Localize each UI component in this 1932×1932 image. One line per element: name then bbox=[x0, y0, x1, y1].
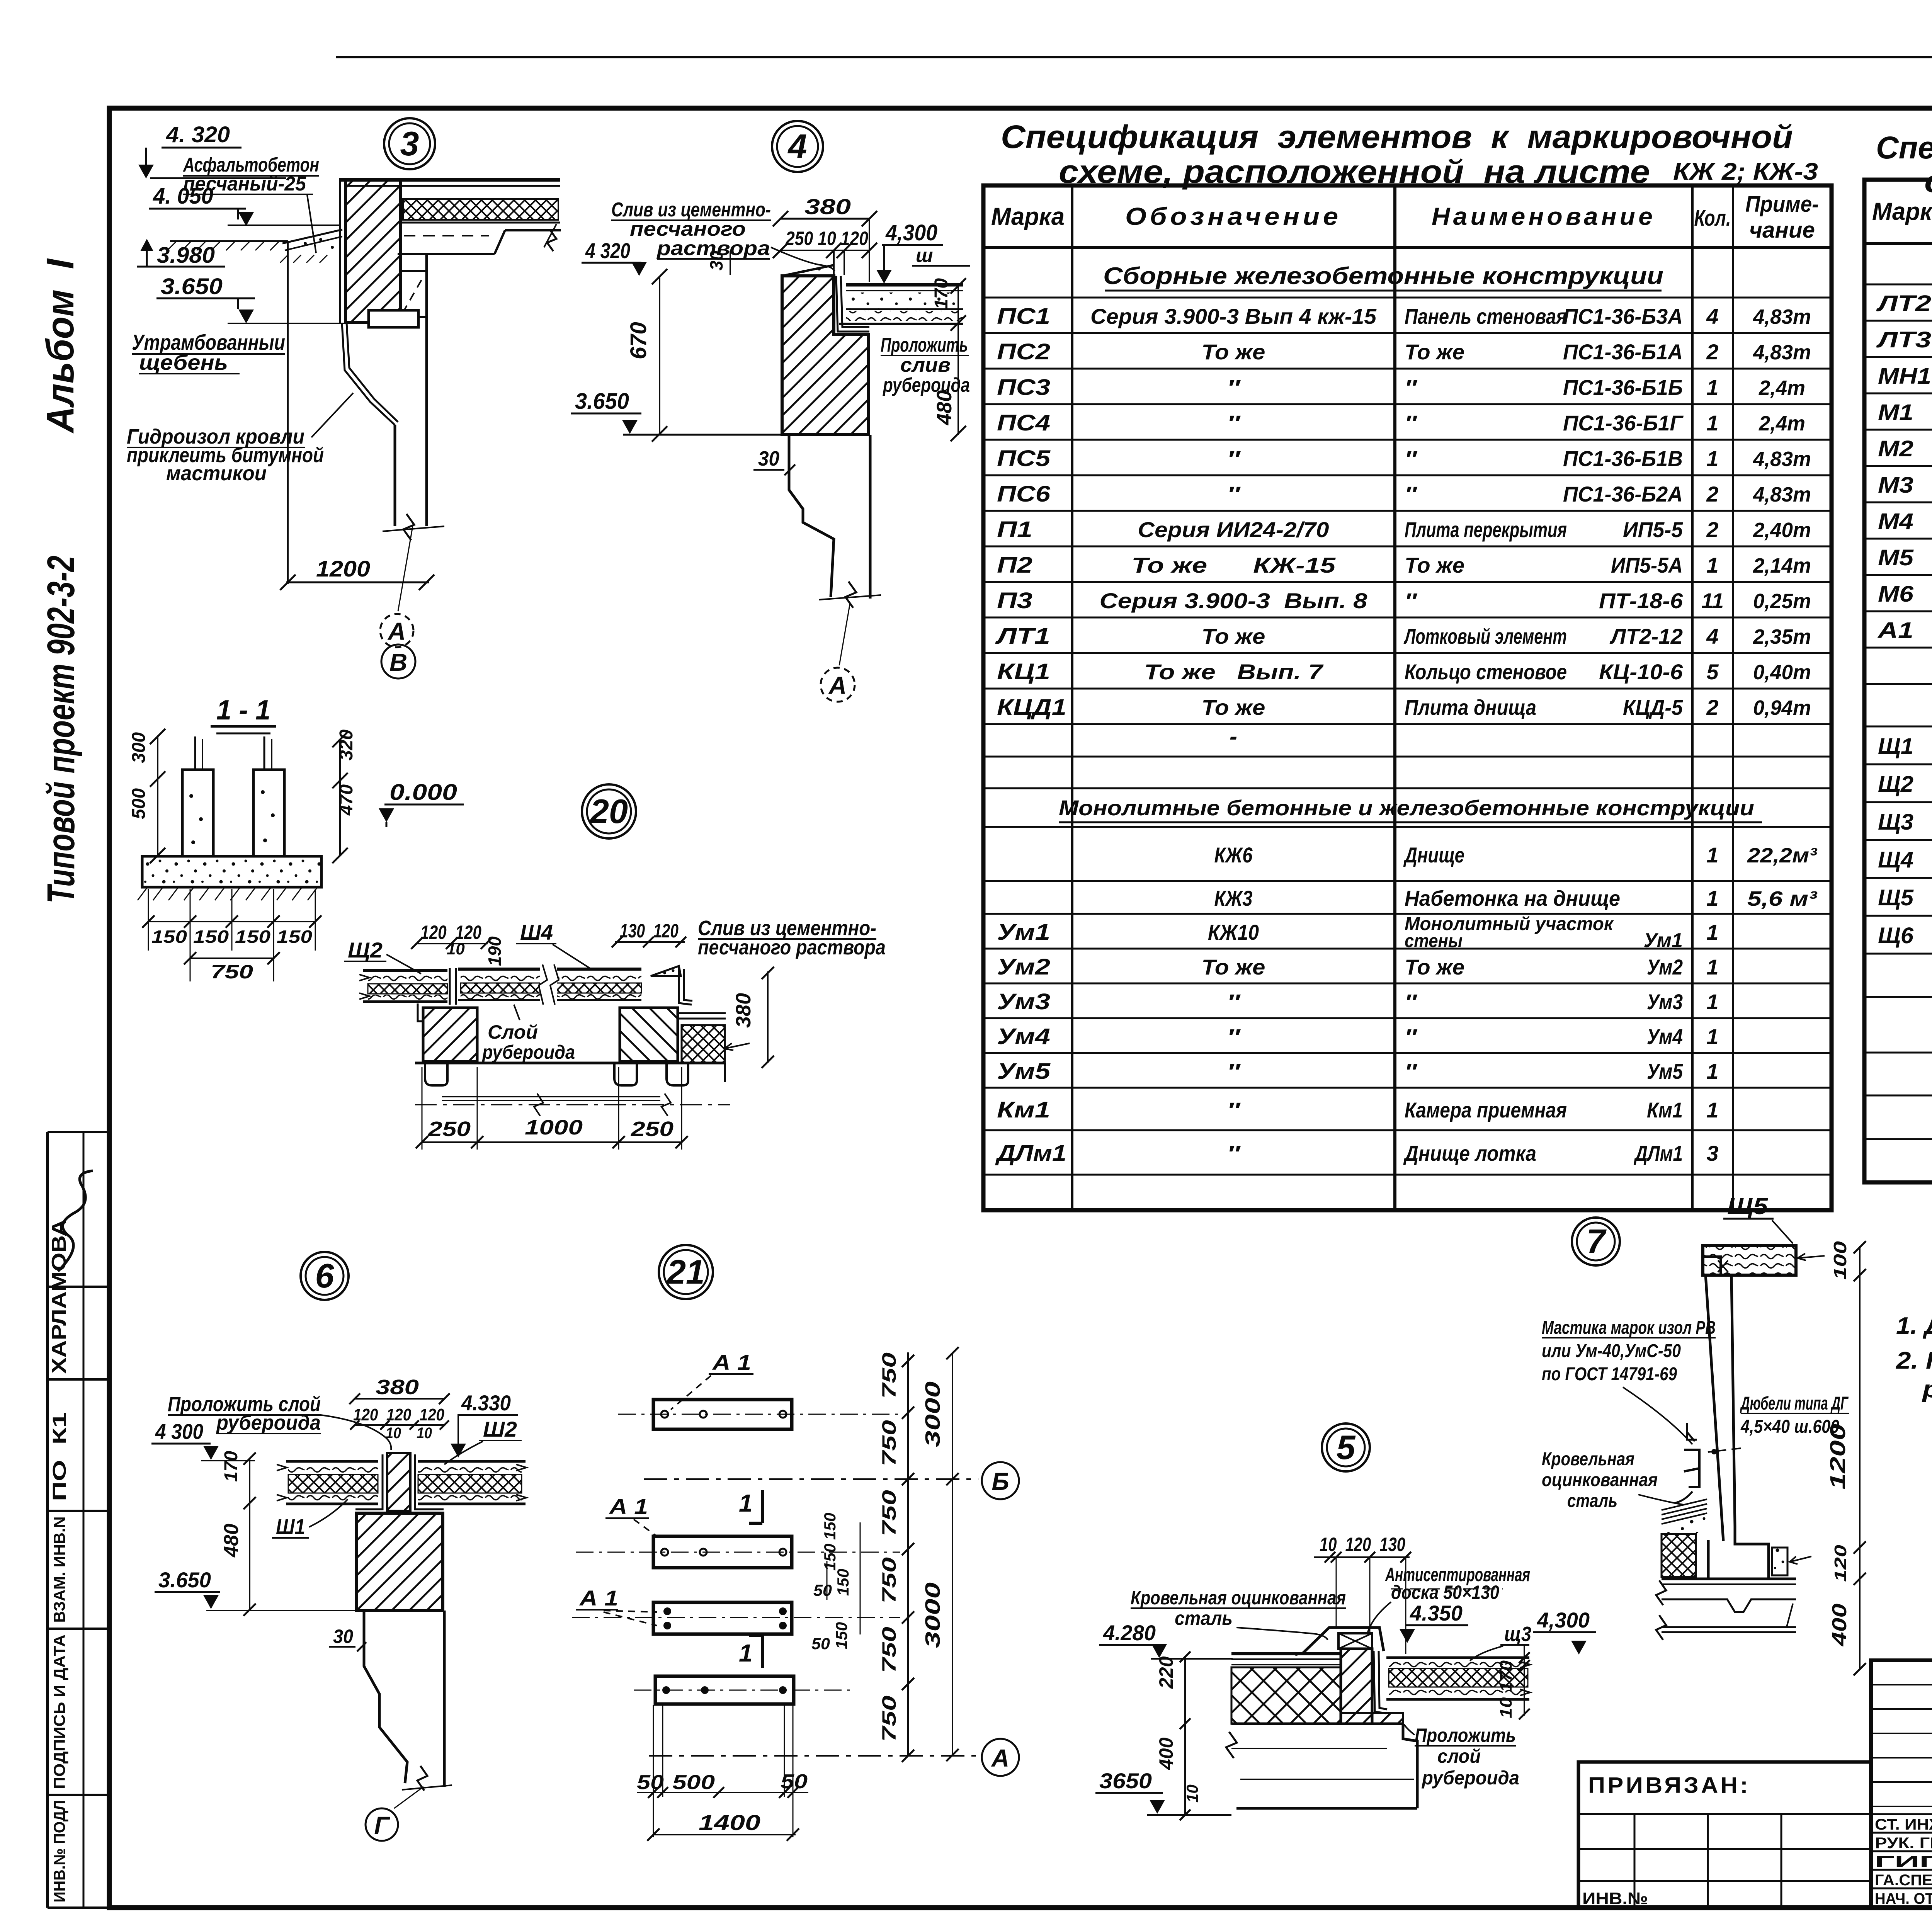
svg-text:То же: То же bbox=[1202, 955, 1265, 979]
detail 21: dim line 3000s bbox=[952, 1352, 953, 1756]
svg-text:КЖ 2; КЖ-3: КЖ 2; КЖ-3 bbox=[1673, 158, 1818, 185]
svg-text:рубероида: рубероида bbox=[1421, 1767, 1519, 1789]
svg-text:Ум4: Ум4 bbox=[1647, 1024, 1683, 1049]
svg-text:ДЛм1: ДЛм1 bbox=[1634, 1141, 1683, 1165]
svg-text:Щ3: Щ3 bbox=[1878, 810, 1913, 835]
detail 6: left dim chain bbox=[249, 1458, 250, 1611]
svg-text:380: 380 bbox=[376, 1376, 419, 1399]
svg-text:50: 50 bbox=[813, 1581, 832, 1599]
detail 3: axis circle A bbox=[380, 614, 413, 647]
svg-text:ХАРЛАМОВА: ХАРЛАМОВА bbox=[48, 1219, 70, 1374]
svg-text:380: 380 bbox=[804, 194, 851, 219]
svg-text:10 120 130: 10 120 130 bbox=[1320, 1534, 1405, 1555]
svg-text:Дюбели типа ДГ: Дюбели типа ДГ bbox=[1740, 1393, 1849, 1414]
svg-text:0,25т: 0,25т bbox=[1753, 590, 1811, 613]
svg-text:4 320: 4 320 bbox=[585, 238, 630, 263]
svg-text:Слой: Слой bbox=[488, 1021, 538, 1043]
svg-text:Км1: Км1 bbox=[997, 1097, 1050, 1122]
svg-text:″: ″ bbox=[1227, 482, 1241, 506]
title block: signature rows bbox=[1871, 1813, 1932, 1815]
svg-text:А: А bbox=[387, 617, 406, 645]
svg-text:4. 320: 4. 320 bbox=[166, 122, 230, 147]
svg-text:Ш4: Ш4 bbox=[520, 920, 553, 944]
svg-text:″: ″ bbox=[1405, 990, 1418, 1014]
svg-text:0.000: 0.000 bbox=[389, 780, 457, 805]
svg-text:стены: стены bbox=[1405, 931, 1463, 951]
svg-text:Б: Б bbox=[992, 1468, 1009, 1495]
svg-text:″: ″ bbox=[1405, 446, 1418, 471]
svg-text:1400: 1400 bbox=[699, 1810, 760, 1835]
svg-text:Альбом I: Альбом I bbox=[39, 258, 82, 434]
svg-text:Ум1: Ум1 bbox=[997, 920, 1050, 945]
svg-text:5,6 м³: 5,6 м³ bbox=[1747, 887, 1818, 910]
svg-text:100: 100 bbox=[1830, 1241, 1850, 1280]
svg-text:Плита днища: Плита днища bbox=[1405, 695, 1536, 719]
svg-text:То же: То же bbox=[1405, 340, 1464, 364]
detail 6: left roof slab bbox=[286, 1460, 378, 1463]
svg-text:4,300: 4,300 bbox=[885, 220, 937, 245]
detail 3: wall lower widening bbox=[400, 271, 427, 317]
detail 6: wall hatched bbox=[356, 1513, 443, 1611]
svg-text:2,4т: 2,4т bbox=[1759, 376, 1805, 400]
svg-text:30: 30 bbox=[333, 1626, 353, 1647]
svg-text:-: - bbox=[1230, 723, 1237, 749]
svg-text:50: 50 bbox=[781, 1770, 808, 1793]
svg-text:″: ″ bbox=[1227, 1141, 1241, 1165]
svg-text:470: 470 bbox=[336, 784, 357, 816]
detail 4 circle bbox=[772, 121, 823, 172]
svg-text:ПС1-36-Б2А: ПС1-36-Б2А bbox=[1563, 482, 1683, 506]
detail 7: top wooden panel bbox=[1703, 1246, 1796, 1275]
section 1-1: ground hatch bbox=[138, 888, 147, 900]
svg-text:ПС3: ПС3 bbox=[997, 375, 1050, 400]
detail 20: right membrane bend bbox=[679, 966, 692, 1005]
detail 5: right wood slab bbox=[1386, 1656, 1529, 1659]
svg-text:750: 750 bbox=[878, 1490, 900, 1536]
svg-text:11: 11 bbox=[1701, 588, 1724, 613]
svg-text:150: 150 bbox=[832, 1622, 850, 1649]
section 1-1: dim 750 bbox=[190, 957, 274, 959]
svg-text:150: 150 bbox=[834, 1569, 852, 1596]
svg-text:Г: Г bbox=[374, 1811, 390, 1839]
svg-text:слив: слив bbox=[900, 354, 951, 376]
svg-text:растворе марки 25: растворе марки 25 bbox=[1922, 1376, 1932, 1403]
svg-text:5: 5 bbox=[1706, 660, 1719, 684]
svg-text:500: 500 bbox=[129, 788, 149, 819]
svg-text:3.650: 3.650 bbox=[161, 274, 223, 299]
svg-text:1: 1 bbox=[1706, 843, 1718, 867]
svg-text:120 120 120: 120 120 120 bbox=[353, 1405, 444, 1424]
svg-text:щ3: щ3 bbox=[1504, 1622, 1531, 1646]
svg-text:Серия 3.900-3 Вып. 8: Серия 3.900-3 Вып. 8 bbox=[1100, 588, 1368, 613]
svg-text:10: 10 bbox=[1183, 1784, 1201, 1803]
svg-text:Панель стеновая: Панель стеновая bbox=[1405, 304, 1567, 328]
svg-text:Щ5: Щ5 bbox=[1727, 1193, 1769, 1219]
svg-text:4: 4 bbox=[1706, 304, 1718, 328]
detail 5: center post with board bbox=[1341, 1649, 1372, 1724]
svg-text:1: 1 bbox=[739, 1639, 753, 1667]
detail 3: lower wall left edge bbox=[394, 425, 396, 526]
detail 7: base slab bbox=[1662, 1578, 1796, 1580]
svg-text:″: ″ bbox=[1227, 1059, 1241, 1083]
svg-text:ПО К1: ПО К1 bbox=[49, 1412, 70, 1501]
detail 3: asphalt leader bbox=[307, 195, 316, 253]
detail 21: plate 3 bbox=[653, 1602, 792, 1634]
sidebar signature scribble bbox=[58, 1171, 93, 1271]
svg-text:30: 30 bbox=[706, 250, 726, 270]
section 1-1: bottom dims 150x4 bbox=[148, 889, 149, 951]
detail 21: dims 50 500 50 bbox=[637, 1792, 808, 1793]
svg-text:3.650: 3.650 bbox=[575, 389, 629, 414]
svg-text:250 10 120: 250 10 120 bbox=[785, 228, 868, 249]
svg-text:чание: чание bbox=[1749, 218, 1815, 243]
svg-text:Монолитные бетонные и железобе: Монолитные бетонные и железобетонные кон… bbox=[1059, 796, 1754, 820]
svg-text:″: ″ bbox=[1227, 1024, 1241, 1049]
svg-text:Ум1: Ум1 bbox=[1644, 929, 1683, 952]
svg-text:Приме-: Приме- bbox=[1745, 192, 1819, 217]
detail 5: base slab outline bbox=[1231, 1723, 1403, 1725]
svg-text:Днище: Днище bbox=[1403, 843, 1464, 867]
svg-text:ПС6: ПС6 bbox=[997, 481, 1051, 507]
svg-text:2,14т: 2,14т bbox=[1753, 554, 1811, 577]
detail 3: dashed soffit line bbox=[404, 235, 489, 236]
detail 4: rotated dim 480 bbox=[933, 390, 956, 425]
svg-text:1: 1 bbox=[1706, 955, 1718, 979]
detail 7: sloped roofing lines bbox=[1662, 1499, 1707, 1510]
svg-text:ЛТ3: ЛТ3 bbox=[1876, 327, 1931, 352]
svg-text:Ум2: Ум2 bbox=[997, 954, 1050, 980]
detail 21: right dim line 750s bbox=[907, 1352, 909, 1756]
detail 20: rotated 190 bbox=[485, 936, 505, 966]
svg-text:4. 050: 4. 050 bbox=[153, 184, 213, 209]
svg-text:Ум5: Ум5 bbox=[1647, 1059, 1683, 1083]
detail 3: axis circle B bbox=[381, 645, 415, 679]
detail 5: left dim chain 220/400/10 bbox=[1184, 1656, 1186, 1816]
svg-text:В: В bbox=[389, 648, 407, 676]
svg-text:4,83т: 4,83т bbox=[1753, 447, 1811, 471]
title block: thin upper rows bbox=[1871, 1684, 1932, 1685]
detail 3: membrane down wall bbox=[342, 323, 395, 425]
svg-text:480: 480 bbox=[220, 1524, 243, 1558]
margin text: project number bbox=[39, 556, 83, 903]
svg-text:4,83т: 4,83т bbox=[1753, 305, 1811, 328]
sidebar text: inv no podl bbox=[50, 1800, 68, 1903]
svg-text:или Ум-40,УмС-50: или Ум-40,УмС-50 bbox=[1542, 1341, 1681, 1361]
svg-text:750: 750 bbox=[878, 1696, 900, 1742]
svg-text:ПС1-36-Б1В: ПС1-36-Б1В bbox=[1563, 446, 1683, 471]
svg-text:ПТ-18-6: ПТ-18-6 bbox=[1599, 588, 1683, 613]
detail 20: slab break symbol bbox=[540, 964, 557, 1005]
detail 4: wall hatched bbox=[782, 276, 868, 435]
svg-text:КЦ-10-6: КЦ-10-6 bbox=[1599, 660, 1683, 684]
detail 5: left roof slab lines bbox=[1231, 1652, 1341, 1655]
detail 3: beam soffit step bbox=[398, 253, 495, 255]
title block outer box bbox=[1871, 1660, 1932, 1908]
svg-text:150: 150 bbox=[277, 927, 312, 947]
svg-text:480: 480 bbox=[933, 390, 956, 425]
svg-text:сталь: сталь bbox=[1567, 1491, 1617, 1511]
svg-text:Мастика марок изол РВ: Мастика марок изол РВ bbox=[1542, 1318, 1716, 1338]
detail 3: extension line to dim bbox=[287, 241, 289, 584]
svg-text:Плита перекрытия: Плита перекрытия bbox=[1405, 517, 1567, 542]
svg-text:Обозначение: Обозначение bbox=[1125, 202, 1342, 230]
svg-text:1: 1 bbox=[1706, 1098, 1718, 1122]
svg-text:10: 10 bbox=[447, 940, 465, 958]
detail 6: right roof slab bbox=[418, 1460, 526, 1463]
svg-text:Спецификация элементов к ма: Спецификация элементов к маркировочной bbox=[1876, 130, 1932, 165]
svg-text:М2: М2 bbox=[1878, 436, 1913, 461]
svg-text:150: 150 bbox=[821, 1513, 839, 1540]
svg-text:750: 750 bbox=[878, 1352, 900, 1399]
svg-text:750: 750 bbox=[878, 1420, 900, 1466]
svg-text:То же: То же bbox=[1202, 695, 1265, 719]
detail 7: small mortar block right bbox=[1772, 1548, 1787, 1575]
svg-text:2,35т: 2,35т bbox=[1753, 625, 1811, 648]
detail 7: wall bbox=[1706, 1275, 1723, 1541]
svg-text:″: ″ bbox=[1405, 482, 1418, 506]
svg-text:ПС4: ПС4 bbox=[997, 410, 1050, 435]
svg-text:1: 1 bbox=[1706, 990, 1718, 1014]
svg-text:Кольцо стеновое: Кольцо стеновое bbox=[1405, 660, 1567, 684]
svg-text:3000: 3000 bbox=[921, 1582, 944, 1648]
svg-text:7: 7 bbox=[1587, 1222, 1607, 1260]
svg-text:Кол.: Кол. bbox=[1694, 206, 1731, 231]
svg-text:3: 3 bbox=[400, 124, 419, 163]
svg-text:″: ″ bbox=[1405, 411, 1418, 435]
svg-text:1: 1 bbox=[1706, 1059, 1718, 1083]
svg-text:ЛТ2: ЛТ2 bbox=[1876, 291, 1931, 316]
svg-text:0,40т: 0,40т bbox=[1753, 661, 1811, 684]
svg-text:750: 750 bbox=[211, 961, 253, 983]
detail 20: axis dash-dot bbox=[415, 1104, 730, 1105]
svg-text:1: 1 bbox=[1706, 375, 1718, 400]
svg-text:РУК. ГР.: РУК. ГР. bbox=[1875, 1835, 1932, 1852]
svg-text:″: ″ bbox=[1227, 446, 1241, 471]
svg-text:слой: слой bbox=[1437, 1745, 1481, 1767]
section 1-1: post 2 bbox=[253, 770, 284, 856]
detail 6: axis circle G bbox=[394, 1787, 423, 1808]
detail 7: insulation block bbox=[1662, 1534, 1696, 1577]
detail 4: membrane at step bbox=[836, 276, 869, 332]
svg-text:ПС2: ПС2 bbox=[997, 339, 1050, 364]
section 1-1: right dim chain bbox=[339, 739, 341, 856]
svg-text:А1: А1 bbox=[1877, 618, 1913, 643]
svg-text:4.350: 4.350 bbox=[1410, 1601, 1463, 1625]
detail 4: vertical dim 670 bbox=[659, 276, 660, 435]
svg-text:по ГОСТ 14791-69: по ГОСТ 14791-69 bbox=[1542, 1364, 1677, 1384]
svg-text:4.330: 4.330 bbox=[461, 1391, 511, 1415]
svg-text:″: ″ bbox=[1405, 375, 1418, 400]
svg-text:130 120: 130 120 bbox=[620, 920, 679, 942]
svg-text:ГА.СПЕЦ: ГА.СПЕЦ bbox=[1875, 1872, 1932, 1889]
svg-text:150: 150 bbox=[235, 927, 270, 947]
left specification table grid bbox=[983, 185, 1832, 1210]
svg-text:ИП5-5А: ИП5-5А bbox=[1611, 553, 1683, 577]
svg-text:ш: ш bbox=[916, 245, 933, 266]
svg-text:″: ″ bbox=[1227, 1098, 1241, 1122]
detail 5: steel cap profile bbox=[1303, 1628, 1384, 1653]
detail 7: right dim chain bbox=[1859, 1246, 1861, 1670]
svg-text:Серия ИИ24-2/70: Серия ИИ24-2/70 bbox=[1138, 517, 1329, 542]
svg-text:щебень: щебень bbox=[139, 350, 228, 374]
svg-text:Серия 3.900-3 Вып 4 кж-15: Серия 3.900-3 Вып 4 кж-15 bbox=[1090, 304, 1377, 328]
svg-text:″: ″ bbox=[1227, 990, 1241, 1014]
svg-text:То же: То же bbox=[1202, 624, 1265, 648]
detail 20: right wall hatched backslash bbox=[620, 1008, 678, 1061]
svg-text:170: 170 bbox=[931, 278, 952, 309]
svg-text:2: 2 bbox=[1706, 482, 1718, 506]
detail 21 circle bbox=[659, 1245, 713, 1299]
svg-text:5: 5 bbox=[1337, 1428, 1356, 1466]
svg-text:1: 1 bbox=[739, 1489, 753, 1517]
svg-text:50: 50 bbox=[811, 1634, 830, 1653]
svg-text:доска 50×130: доска 50×130 bbox=[1391, 1582, 1499, 1603]
detail 4: rotated small 30 bbox=[706, 250, 726, 270]
svg-text:1: 1 bbox=[1706, 411, 1718, 435]
svg-text:4 300: 4 300 bbox=[155, 1419, 203, 1444]
svg-text:М4: М4 bbox=[1878, 509, 1913, 534]
svg-text:0,94т: 0,94т bbox=[1753, 696, 1811, 719]
detail 3: roof slab top lines bbox=[340, 178, 560, 182]
svg-text:3650: 3650 bbox=[1099, 1769, 1152, 1793]
svg-text:Типовой проект 902-3-2: Типовой проект 902-3-2 bbox=[39, 556, 83, 903]
svg-text:М1: М1 bbox=[1878, 400, 1913, 425]
svg-text:30: 30 bbox=[758, 447, 779, 470]
svg-text:Кровельная оцинкованная: Кровельная оцинкованная bbox=[1131, 1587, 1346, 1609]
svg-text:300: 300 bbox=[129, 732, 149, 763]
detail 20: left slab end arrows bbox=[359, 975, 369, 999]
detail 6: center post hatched bbox=[387, 1453, 410, 1511]
svg-text:Сборные железобетонные констру: Сборные железобетонные конструкции bbox=[1103, 263, 1663, 289]
svg-text:2,4т: 2,4т bbox=[1759, 412, 1805, 435]
svg-text:Камера приемная: Камера приемная bbox=[1405, 1098, 1567, 1122]
svg-text:Щ4: Щ4 bbox=[1878, 847, 1913, 872]
svg-text:Набетонка на днище: Набетонка на днище bbox=[1405, 886, 1620, 910]
svg-text:Км1: Км1 bbox=[1647, 1098, 1683, 1122]
detail 20: bottom dims bbox=[422, 1067, 423, 1150]
svg-text:То же: То же bbox=[1405, 553, 1464, 577]
section 1-1: rebar pins bbox=[194, 736, 196, 770]
detail 4: lower wall outline bbox=[789, 435, 834, 597]
detail 3: centerline to axis circles bbox=[398, 526, 413, 611]
svg-text:4.280: 4.280 bbox=[1103, 1621, 1156, 1645]
margin text: album number bbox=[39, 258, 82, 434]
svg-text:220: 220 bbox=[1155, 1656, 1177, 1689]
detail 20: trough feet bbox=[425, 1063, 447, 1085]
detail 7: steel clamp profiles bbox=[1687, 1423, 1697, 1441]
sidebar text: cell 2 bbox=[49, 1412, 70, 1501]
detail 3: roof slab insulation cross-hatch bbox=[403, 199, 558, 220]
svg-text:3: 3 bbox=[1706, 1141, 1718, 1165]
svg-text:1: 1 bbox=[1706, 886, 1718, 910]
detail 20: left roof slab bbox=[363, 969, 447, 972]
detail 21: small dims 150/50 bbox=[821, 1513, 839, 1540]
svg-text:ПС1-36-Б1А: ПС1-36-Б1А bbox=[1563, 340, 1683, 364]
svg-text:2. Кирпичную обвязку выполнять: 2. Кирпичную обвязку выполнять из кирпич… bbox=[1896, 1347, 1932, 1374]
svg-text:Ш2: Ш2 bbox=[483, 1417, 517, 1441]
detail 4: lower wall break bbox=[819, 595, 881, 600]
svg-text:Лотковый элемент: Лотковый элемент bbox=[1403, 624, 1567, 648]
sidebar text: surname bbox=[48, 1219, 70, 1374]
svg-text:То же Вып. 7: То же Вып. 7 bbox=[1144, 660, 1324, 684]
svg-text:П2: П2 bbox=[997, 553, 1032, 578]
detail 20: middle roof slab bbox=[458, 968, 641, 971]
detail 5 circle bbox=[1322, 1423, 1370, 1471]
svg-text:ЛТ1: ЛТ1 bbox=[995, 624, 1050, 649]
svg-text:3000: 3000 bbox=[921, 1381, 944, 1447]
detail 3: ground line with hatch bbox=[170, 240, 288, 242]
svg-text:20: 20 bbox=[589, 792, 628, 830]
detail 7 circle bbox=[1572, 1218, 1620, 1265]
detail 3: leader hydro label bbox=[311, 393, 353, 437]
svg-text:150: 150 bbox=[151, 927, 187, 947]
detail 20: sloi ruberoida callout bbox=[482, 1020, 565, 1062]
svg-text:Кровельная: Кровельная bbox=[1542, 1449, 1634, 1469]
svg-text:1000: 1000 bbox=[525, 1116, 583, 1139]
detail 21: bottom extension lines bbox=[662, 1705, 663, 1797]
svg-text:150: 150 bbox=[821, 1544, 839, 1571]
top margin line bbox=[336, 56, 1932, 58]
svg-text:670: 670 bbox=[626, 322, 651, 359]
svg-text:2: 2 bbox=[1706, 340, 1718, 364]
svg-text:3.650: 3.650 bbox=[158, 1568, 211, 1592]
detail 4: sliv leader bbox=[771, 247, 835, 271]
svg-text:Марка: Марка bbox=[1872, 197, 1932, 225]
svg-text:Днище лотка: Днище лотка bbox=[1403, 1141, 1536, 1165]
svg-text:мастикои: мастикои bbox=[166, 462, 267, 485]
svg-text:380: 380 bbox=[732, 993, 755, 1028]
svg-text:Щ2: Щ2 bbox=[348, 938, 383, 962]
svg-text:МН1: МН1 bbox=[1878, 364, 1931, 389]
detail 4: right slab bands bbox=[846, 283, 963, 287]
svg-text:То же КЖ-15: То же КЖ-15 bbox=[1131, 553, 1336, 577]
detail 5: right dims 10 170 bbox=[1524, 1645, 1525, 1716]
detail 7: wall bottom flange bbox=[1708, 1526, 1769, 1579]
detail 21: dim 1400 bbox=[653, 1834, 796, 1835]
svg-text:рубероида: рубероида bbox=[481, 1041, 575, 1063]
detail 21: plate 4 bbox=[655, 1676, 794, 1704]
detail 5: base hatched strip bbox=[1341, 1713, 1403, 1724]
svg-text:ИНВ.№ ПОДЛ: ИНВ.№ ПОДЛ bbox=[50, 1800, 68, 1903]
svg-text:ЛТ2-12: ЛТ2-12 bbox=[1609, 624, 1683, 648]
svg-text:То же: То же bbox=[1405, 955, 1464, 979]
svg-text:Щ1: Щ1 bbox=[1878, 734, 1913, 759]
svg-text:П3: П3 bbox=[997, 588, 1032, 613]
svg-text:4,83т: 4,83т bbox=[1753, 483, 1811, 506]
svg-text:КЖ10: КЖ10 bbox=[1208, 920, 1259, 944]
svg-text:1200: 1200 bbox=[316, 556, 370, 582]
svg-text:Марка: Марка bbox=[991, 202, 1065, 230]
svg-text:400: 400 bbox=[1155, 1737, 1177, 1770]
detail 20: right insulation block bbox=[678, 1012, 726, 1014]
svg-text:2,40т: 2,40т bbox=[1753, 519, 1811, 542]
svg-text:КЦД1: КЦД1 bbox=[997, 695, 1066, 720]
svg-text:ПС1-36-Б1Б: ПС1-36-Б1Б bbox=[1563, 375, 1683, 400]
detail 20: membrane hook left wall bbox=[418, 1003, 424, 1021]
svg-text:250: 250 bbox=[631, 1117, 673, 1141]
svg-text:ПРИВЯЗАН:: ПРИВЯЗАН: bbox=[1588, 1773, 1750, 1798]
detail 3: support pad bbox=[369, 310, 418, 327]
privyazan block bbox=[1578, 1762, 1871, 1908]
svg-text:Щ6: Щ6 bbox=[1878, 923, 1914, 948]
svg-text:Спецификация элементов к ма: Спецификация элементов к маркировочной bbox=[1001, 119, 1793, 155]
svg-text:2: 2 bbox=[1706, 695, 1718, 719]
svg-text:ПС1: ПС1 bbox=[997, 304, 1050, 329]
svg-text:250: 250 bbox=[428, 1117, 471, 1141]
svg-text:1: 1 bbox=[1706, 1024, 1718, 1049]
section 1-1: post 1 bbox=[182, 770, 213, 856]
svg-text:500: 500 bbox=[672, 1771, 715, 1794]
